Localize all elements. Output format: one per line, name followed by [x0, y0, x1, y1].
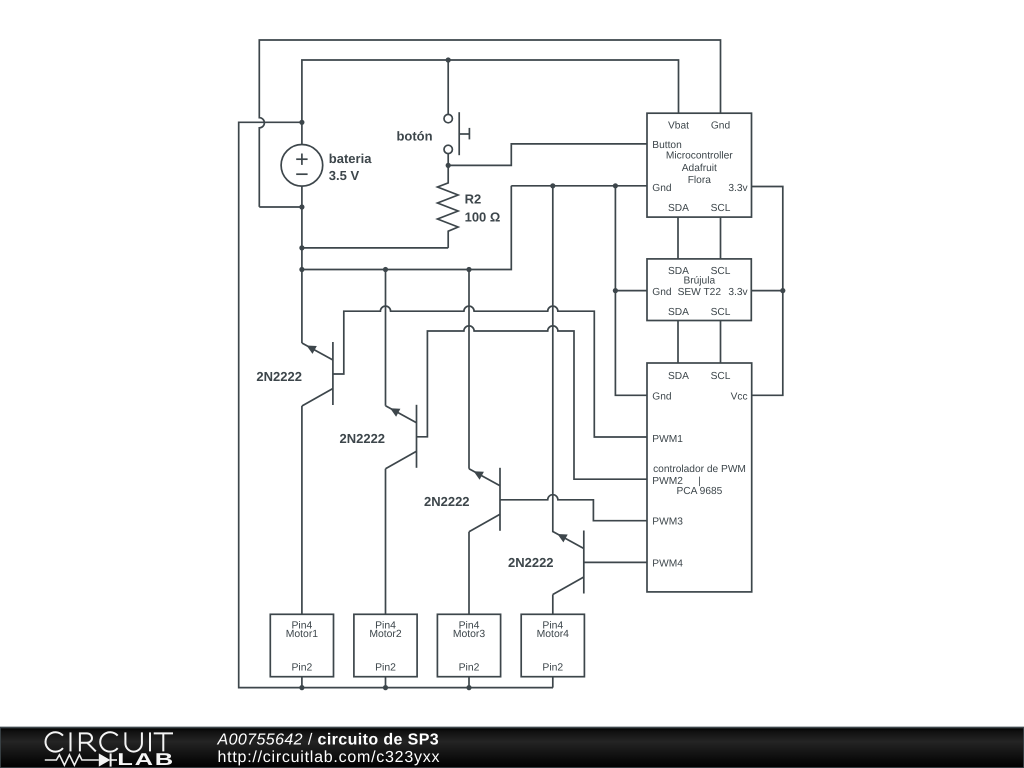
wire battery+ top to Vbat	[302, 60, 679, 122]
wire battery top lead	[301, 122, 303, 144]
svg-text:Pin2: Pin2	[292, 663, 313, 674]
wire SCL micro-compass	[720, 217, 722, 259]
logo LAB text	[117, 750, 175, 768]
svg-text:Adafruit: Adafruit	[682, 163, 717, 174]
wire button drop	[447, 60, 449, 114]
svg-text:PWM1: PWM1	[652, 434, 683, 445]
wire ground drop to Q4 emitter	[552, 186, 554, 532]
motor M1 Motor1	[270, 614, 333, 687]
svg-text:LAB: LAB	[117, 750, 175, 768]
node 3.3v / compass 3.3v	[780, 288, 785, 293]
svg-text:Motor2: Motor2	[369, 629, 402, 640]
wire battery- vertical to Q1 emitter	[301, 186, 303, 343]
node ground / Q4 emitter drop	[550, 183, 555, 188]
node button bottom / R2 / Button pin	[446, 163, 451, 168]
wire button bottom lead	[447, 154, 449, 166]
pushbutton SW1 boton	[444, 112, 469, 155]
battery V1 bateria 3.5V	[281, 145, 323, 187]
node ground bus / Q3 emitter	[466, 267, 471, 272]
wire SDA compass-pwm	[677, 321, 679, 364]
logo resistor-diode glyph	[45, 753, 117, 766]
footer url	[218, 749, 441, 766]
wire Q2 base to PWM2	[417, 326, 648, 479]
svg-text:Gnd: Gnd	[652, 287, 672, 298]
wire Q2 emitter riser	[385, 270, 387, 406]
svg-text:3.3v: 3.3v	[728, 287, 748, 298]
svg-text:Pin2: Pin2	[542, 663, 563, 674]
wire ground bus y186 to Gnd pin	[511, 185, 647, 187]
node battery+ / outer loop	[299, 120, 304, 125]
footer title	[217, 732, 440, 749]
label boton	[396, 128, 432, 143]
svg-text:SDA: SDA	[668, 203, 689, 214]
wire Q4 base to PWM4	[584, 561, 647, 563]
wire SCL compass-pwm	[720, 321, 722, 364]
motor M3 Motor3	[437, 614, 500, 687]
svg-text:SCL: SCL	[711, 307, 731, 318]
svg-text:botón: botón	[396, 128, 432, 143]
wire Q2 collector to Motor2	[385, 469, 387, 615]
logo CIRCUIT text	[46, 732, 173, 751]
node ground / module Gnd column	[613, 183, 618, 188]
wire R2 bottom to battery-	[302, 247, 448, 249]
svg-text:2N2222: 2N2222	[508, 555, 554, 570]
svg-text:SCL: SCL	[711, 371, 731, 382]
node Motor2 Pin2	[383, 685, 388, 690]
svg-text:2N2222: 2N2222	[424, 494, 470, 509]
wire Q1 collector to Motor1	[301, 406, 303, 614]
transistor Q1 2N2222	[302, 342, 333, 406]
svg-text:Motor1: Motor1	[286, 629, 319, 640]
svg-text:Flora: Flora	[688, 175, 712, 186]
wire ground column to module Gnd pins	[615, 186, 647, 395]
node battery- / R2 bottom	[299, 245, 304, 250]
PWM controller U3 PCA 9685	[647, 363, 752, 592]
node battery- / top loop	[299, 204, 304, 209]
transistor Q2 2N2222	[386, 405, 417, 469]
svg-text:R2: R2	[465, 192, 482, 207]
svg-text:Motor4: Motor4	[537, 629, 570, 640]
svg-text:100 Ω: 100 Ω	[465, 210, 501, 225]
wire Q4 collector to Motor4	[552, 595, 554, 615]
svg-text:Gnd: Gnd	[652, 183, 672, 194]
label Q1 2N2222	[256, 369, 302, 384]
node ground bus / Q2 emitter	[383, 267, 388, 272]
wire Q3 emitter riser	[468, 270, 470, 469]
label R2 100	[465, 192, 501, 225]
node Motor3 Pin2	[466, 685, 471, 690]
svg-text:Vbat: Vbat	[668, 120, 689, 131]
label Q3 2N2222	[424, 494, 470, 509]
svg-text:PCA 9685: PCA 9685	[676, 486, 722, 497]
svg-text:Gnd: Gnd	[652, 392, 672, 403]
transistor Q4 2N2222	[553, 531, 584, 595]
wire Gnd to compass	[615, 290, 647, 292]
wire Q1 base to PWM1	[333, 306, 647, 437]
svg-text:PWM3: PWM3	[652, 517, 683, 528]
svg-text:Pin2: Pin2	[375, 663, 396, 674]
svg-text:3.5 V: 3.5 V	[329, 168, 360, 183]
wire Q3 base to PWM3	[500, 495, 647, 521]
node ground bus / Q1 emitter	[299, 267, 304, 272]
label Q2 2N2222	[340, 431, 386, 446]
svg-text:bateria: bateria	[329, 151, 372, 166]
svg-text:Brújula: Brújula	[683, 276, 715, 287]
wire Q3 collector to Motor3	[468, 532, 470, 615]
motor M2 Motor2	[354, 614, 417, 687]
footer bar	[0, 728, 1024, 768]
label Q4 2N2222	[508, 555, 554, 570]
transistor Q3 2N2222	[469, 468, 500, 532]
svg-text:A00755642 / circuito de SP3: A00755642 / circuito de SP3	[217, 732, 440, 749]
wire 3.3v column	[752, 187, 783, 396]
node Motor1 Pin2	[299, 685, 304, 690]
svg-text:SDA: SDA	[668, 307, 689, 318]
svg-text:PWM4: PWM4	[652, 558, 683, 569]
wire SDA micro-compass	[677, 217, 679, 259]
svg-text:Motor3: Motor3	[453, 629, 486, 640]
svg-text:SCL: SCL	[711, 203, 731, 214]
svg-text:Vcc: Vcc	[731, 392, 748, 403]
svg-text:Microcontroller: Microcontroller	[666, 150, 733, 161]
compass U2 Brujula SEW T22	[647, 259, 751, 321]
svg-text:http://circuitlab.com/c323yxx: http://circuitlab.com/c323yxx	[218, 749, 441, 766]
svg-text:2N2222: 2N2222	[340, 431, 386, 446]
wire outer left loop to motors Pin2	[239, 122, 553, 687]
wire top outer battery- to Gnd pin	[259, 40, 720, 207]
svg-text:3.3v: 3.3v	[728, 183, 748, 194]
svg-text:SEW T22: SEW T22	[678, 287, 722, 298]
motor M4 Motor4	[521, 614, 584, 687]
wire battery- left segment	[259, 206, 302, 208]
node ground / compass Gnd	[613, 288, 618, 293]
svg-text:Pin2: Pin2	[459, 663, 480, 674]
svg-text:controlador de PWM: controlador de PWM	[653, 464, 746, 475]
svg-text:SDA: SDA	[668, 371, 689, 382]
wire 3.3v to compass	[751, 290, 783, 292]
node button top / Vbat feed	[446, 57, 451, 62]
microcontroller U1 Adafruit Flora	[647, 113, 752, 217]
resistor R2 100 ohm	[438, 165, 459, 248]
wire ground bus y270	[302, 186, 511, 270]
svg-text:Gnd: Gnd	[711, 120, 731, 131]
label bateria 3.5V	[329, 151, 372, 183]
wire button to Button pin	[448, 144, 647, 166]
svg-text:2N2222: 2N2222	[256, 369, 302, 384]
